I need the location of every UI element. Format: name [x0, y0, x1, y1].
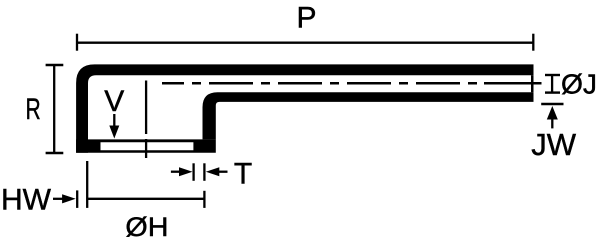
- dimension OJ: bottom tick: [545, 91, 560, 93]
- svg-text:JW: JW: [531, 127, 577, 162]
- dimension HW: tick at hub outer wall: [76, 190, 78, 208]
- svg-text:R: R: [26, 93, 41, 126]
- dimension P: left tick: [76, 34, 78, 51]
- part body: top wall and left wall of handle cap: [76, 64, 533, 152]
- svg-text:P: P: [296, 2, 316, 35]
- centerline: vertical axis of hub upper segment: [145, 81, 147, 135]
- dimension T: right arrow tail: [219, 171, 228, 173]
- centerline: final dash through shaft end: [484, 82, 542, 85]
- centerline: vertical axis of hub lower segment: [145, 139, 147, 158]
- dimension JW: arrowhead pointing up: [547, 106, 558, 120]
- svg-text:T: T: [234, 157, 252, 190]
- svg-text:ØJ: ØJ: [561, 68, 597, 99]
- dimension V: arrow shaft: [113, 114, 115, 127]
- dimension OJ: top tick: [545, 74, 560, 76]
- centerline: horizontal dash-dot axis of shaft: [162, 82, 484, 85]
- dimension R: bottom tick: [46, 152, 64, 155]
- part body: bottom band of cap with slot opening: [76, 139, 216, 152]
- svg-text:ØH: ØH: [125, 212, 168, 242]
- dimension T: left arrowhead: [179, 167, 193, 176]
- dimension P: right tick: [532, 34, 534, 51]
- part body: shaft end closure line: [531, 75, 534, 92]
- dimension R: line: [53, 65, 55, 153]
- dimension HW: arrowhead: [62, 194, 76, 203]
- dimension T: right arrowhead: [206, 167, 220, 176]
- dimension OH: right tick: [203, 191, 205, 208]
- part body: step wall and shaft bottom wall: [203, 92, 534, 139]
- dimension R: top tick: [46, 64, 64, 67]
- svg-text:V: V: [104, 85, 124, 118]
- dimension P: line: [77, 42, 534, 44]
- dimension T: right extension bar: [203, 163, 205, 181]
- dimension JW: tick bar: [541, 103, 563, 105]
- dimension OH: line: [87, 198, 204, 200]
- dimension V: arrowhead: [109, 126, 119, 139]
- dimension JW: arrow tail: [551, 119, 553, 129]
- dimension OJ: vertical line: [551, 76, 553, 92]
- svg-text:HW: HW: [1, 183, 52, 216]
- dimension OH: extension line at hub inner wall: [86, 161, 88, 208]
- dimension T: left arrow tail: [171, 171, 180, 173]
- dimension HW: arrow tail: [53, 198, 64, 200]
- dimension T: left extension bar: [192, 163, 194, 181]
